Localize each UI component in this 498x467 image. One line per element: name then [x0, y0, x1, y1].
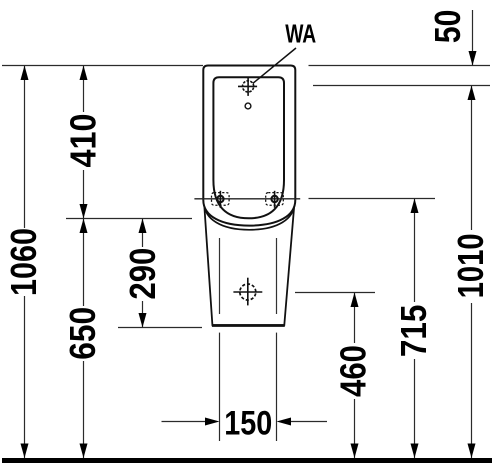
dimension 460 line [354, 293, 356, 459]
dimension 410 arrows [80, 66, 88, 81]
dimension 1010 arrows [468, 86, 476, 101]
dimension 150 lines [162, 421, 207, 423]
extension line drain level y=292 (right, to 460 dim) [295, 292, 375, 294]
dimension 410 line [83, 66, 85, 219]
drain hidden line left [219, 238, 221, 314]
svg-text:150: 150 [224, 405, 272, 443]
svg-text:1010: 1010 [450, 233, 491, 298]
mounting holes horizontal line [194, 198, 300, 200]
dimension 1060 arrows [21, 66, 29, 81]
dimension 650 arrows [80, 219, 88, 234]
extension line rim level y=218.5 (left) [66, 218, 192, 220]
extension line body bottom y=327 (left, for 290 dim) [118, 327, 202, 329]
urinal outer rim lower arc [204, 203, 294, 230]
extension line WA level y=85 (right) [313, 85, 490, 87]
extension line mounting holes y=199 (right, to 715 dim) [309, 198, 436, 200]
dimension 460 arrows [351, 293, 359, 308]
svg-text:650: 650 [62, 307, 103, 360]
svg-text:410: 410 [63, 114, 104, 168]
svg-text:WA: WA [285, 19, 316, 49]
dimension 50 arrow [469, 51, 477, 66]
svg-text:715: 715 [393, 305, 434, 358]
urinal pedestal bottom edge [212, 324, 285, 327]
small hole circle below WA [245, 103, 251, 109]
svg-text:50: 50 [427, 10, 468, 44]
dimension 290 arrows [139, 219, 147, 234]
dimension 150 arrows [205, 418, 220, 426]
drain hidden line right [276, 238, 278, 314]
dimension 715 arrows [411, 199, 419, 214]
mounting hole right [266, 191, 284, 208]
dimension 715 line [414, 199, 416, 459]
urinal inner bowl [213, 77, 284, 218]
dimension 50 line [472, 10, 474, 66]
urinal pedestal body [204, 201, 295, 325]
dimension 1060 line [24, 66, 26, 459]
extension line top at y=66 (left of urinal) [2, 65, 203, 67]
dimension 150 extension ticks [219, 333, 221, 441]
dimension 650 line [83, 219, 85, 459]
extension line top at y=66 (right of urinal) [309, 65, 491, 67]
dimension 290 line [142, 219, 144, 328]
floor line [2, 458, 492, 463]
svg-text:460: 460 [333, 345, 374, 397]
mounting hole left [212, 191, 230, 208]
drain crosshair center [233, 278, 262, 306]
svg-text:290: 290 [122, 248, 163, 300]
urinal outer shell [203, 66, 295, 226]
dimension 1010 line [471, 86, 473, 459]
svg-text:1060: 1060 [3, 228, 44, 296]
WA inlet crosshair [238, 77, 257, 96]
WA pointer line [253, 48, 296, 83]
